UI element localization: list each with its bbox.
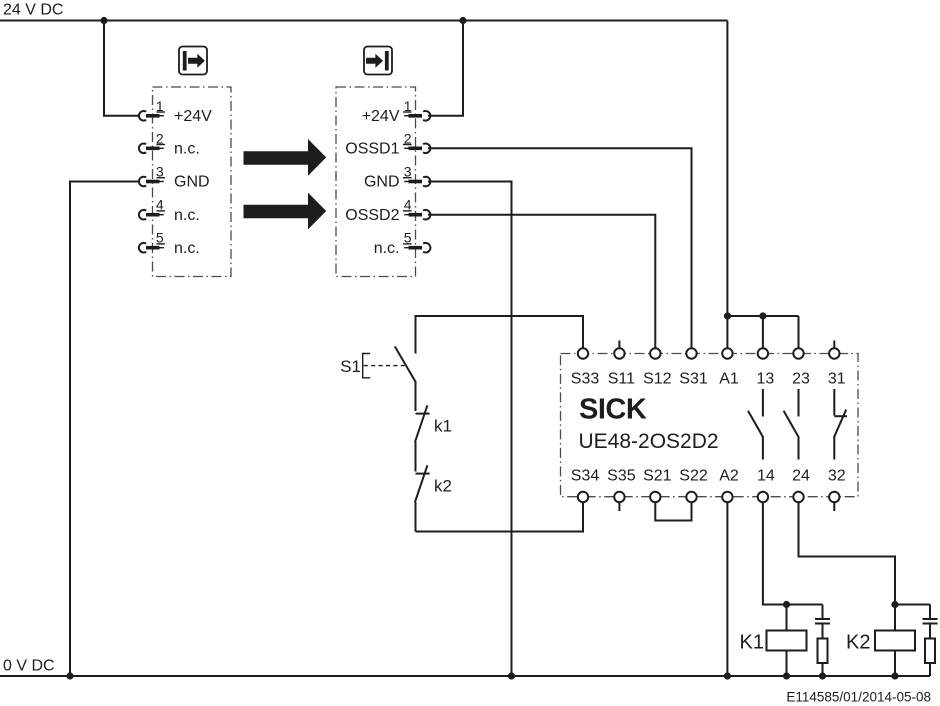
svg-text:k1: k1 (434, 417, 452, 436)
svg-text:24: 24 (792, 468, 810, 485)
wire 0V supply rail (0, 675, 930, 677)
svg-text:31: 31 (828, 371, 846, 388)
svg-text:S22: S22 (679, 468, 708, 485)
svg-text:3: 3 (156, 164, 164, 180)
sender device box (dash-dot outline) (153, 87, 232, 277)
light beam arrow 1 (244, 139, 327, 176)
svg-text:4: 4 (156, 197, 164, 213)
wire feedback loop to terminal S34 (416, 502, 584, 532)
node junction 14-wire / K1 coil (783, 601, 790, 608)
svg-text:n.c.: n.c. (174, 141, 200, 158)
svg-text:1: 1 (404, 98, 412, 114)
capacitor C1 (K1 suppressor) (815, 605, 830, 624)
node junction 24V rail / receiver feed (459, 17, 466, 24)
wire A2 to 0V rail (726, 502, 728, 676)
node junction feeder / terminal 13 (759, 312, 766, 319)
svg-text:SICK: SICK (579, 394, 647, 426)
svg-text:4: 4 (404, 197, 412, 213)
contact 23-24 (NO safety output) (784, 389, 799, 460)
svg-text:n.c.: n.c. (174, 240, 200, 257)
svg-text:+24V: +24V (362, 108, 400, 125)
node junction 0V rail / K1 coil (783, 672, 790, 679)
sender pin 2 (139, 130, 165, 153)
svg-text:n.c.: n.c. (174, 207, 200, 224)
resistor R2 (K2 suppressor) (925, 624, 935, 677)
wire +24V feed to receiver pin 1 (428, 21, 463, 116)
receiver pin 2 (403, 130, 430, 153)
receiver pin 3 (403, 164, 430, 187)
contact k2 (NC feedback contact) (415, 465, 430, 531)
svg-text:24 V DC: 24 V DC (3, 2, 63, 19)
svg-text:A2: A2 (719, 468, 739, 485)
wire 24V supply rail (0, 20, 727, 22)
svg-text:K2: K2 (846, 632, 870, 654)
terminal A1 (719, 348, 739, 387)
svg-text:3: 3 (404, 164, 412, 180)
node junction 24-wire / K2 coil (891, 601, 898, 608)
svg-text:OSSD2: OSSD2 (345, 207, 399, 224)
sender pin 5 (139, 230, 165, 253)
node junction 0V rail / sender GND (66, 672, 73, 679)
sender pin 1 (139, 98, 165, 121)
wire +24V feed to sender pin 1 (104, 21, 139, 116)
svg-text:14: 14 (757, 468, 775, 485)
svg-text:0 V DC: 0 V DC (3, 658, 55, 675)
receiver pin 4 (403, 197, 430, 220)
terminal S21 (643, 468, 672, 503)
terminal S31 (679, 348, 708, 387)
svg-text:S1: S1 (340, 357, 361, 376)
resistor R1 (K1 suppressor) (818, 624, 828, 677)
svg-text:GND: GND (174, 174, 210, 191)
svg-text:2: 2 (156, 130, 164, 146)
svg-text:E114585/01/2014-05-08: E114585/01/2014-05-08 (786, 690, 931, 705)
svg-text:GND: GND (364, 174, 400, 191)
wire sender GND to 0V rail (70, 182, 139, 677)
svg-text:OSSD1: OSSD1 (345, 141, 399, 158)
wire jumper S21-S22 (655, 502, 691, 520)
svg-text:K1: K1 (740, 632, 764, 654)
node junction 24V rail / sender feed (100, 17, 107, 24)
terminal S34 (571, 468, 600, 503)
svg-text:2: 2 (404, 130, 412, 146)
sender icon (light emission symbol) (179, 47, 207, 75)
contact 31-32 (NC auxiliary output) (834, 389, 847, 460)
svg-text:A1: A1 (719, 371, 739, 388)
wire terminal 24 to K2 (799, 502, 931, 604)
wire reset circuit to terminal S33 (416, 316, 584, 354)
svg-text:5: 5 (156, 230, 164, 246)
terminal S22 (679, 468, 708, 503)
terminal 14 (757, 468, 775, 503)
svg-text:S11: S11 (608, 371, 635, 388)
terminal 13 (757, 348, 775, 387)
contact 13-14 (NO safety output) (748, 389, 763, 460)
terminal A2 (719, 468, 739, 503)
receiver pin 5 (403, 230, 430, 253)
sender pin 4 (139, 197, 165, 220)
svg-text:S12: S12 (643, 371, 672, 388)
svg-text:13: 13 (757, 371, 775, 388)
node junction 0V rail / A2 (724, 672, 731, 679)
light beam arrow 2 (244, 193, 327, 230)
svg-text:UE48-2OS2D2: UE48-2OS2D2 (579, 430, 719, 453)
svg-text:+24V: +24V (174, 108, 212, 125)
receiver device box (dash-dot outline) (336, 87, 416, 277)
safety relay U1 box (dash-dot outline) (561, 354, 859, 497)
terminal S11 (with stub) (608, 341, 635, 388)
svg-text:23: 23 (792, 371, 810, 388)
wire 24V feeder to A1 / 13 / 23 (727, 21, 798, 349)
svg-text:k2: k2 (434, 477, 452, 496)
svg-text:32: 32 (828, 468, 846, 485)
svg-text:n.c.: n.c. (374, 240, 400, 257)
wire terminal 14 to K1 (763, 502, 823, 604)
wire OSSD1 to terminal S31 (428, 148, 692, 348)
contactor coil K1 (767, 605, 807, 677)
contactor coil K2 (875, 605, 915, 677)
terminal 32 (with stub) (828, 468, 846, 512)
terminal 31 (with stub) (828, 341, 846, 388)
svg-text:5: 5 (404, 230, 412, 246)
pushbutton S1 (340, 346, 416, 411)
receiver pin 1 (403, 98, 430, 121)
node junction feeder / A1 (724, 312, 731, 319)
contact k1 (NC feedback contact) (415, 405, 430, 471)
sender pin 3 (139, 164, 165, 187)
terminal S33 (571, 348, 600, 387)
svg-text:S21: S21 (643, 468, 672, 485)
capacitor C2 (K2 suppressor) (923, 605, 938, 624)
terminal 24 (792, 468, 810, 503)
wire OSSD2 to terminal S12 (428, 215, 655, 349)
svg-text:S34: S34 (571, 468, 600, 485)
terminal S12 (643, 348, 672, 387)
wire receiver GND to 0V rail (428, 182, 512, 677)
node junction 0V rail / receiver GND (508, 672, 515, 679)
svg-text:S33: S33 (571, 371, 600, 388)
svg-text:S31: S31 (679, 371, 708, 388)
node junction 0V rail / K2 coil (891, 672, 898, 679)
svg-text:S35: S35 (607, 468, 636, 485)
terminal S35 (with stub) (607, 468, 636, 512)
node junction 0V rail / R1 (819, 672, 826, 679)
terminal 23 (792, 348, 810, 387)
svg-text:1: 1 (156, 98, 164, 114)
receiver icon (light reception symbol) (364, 47, 392, 75)
